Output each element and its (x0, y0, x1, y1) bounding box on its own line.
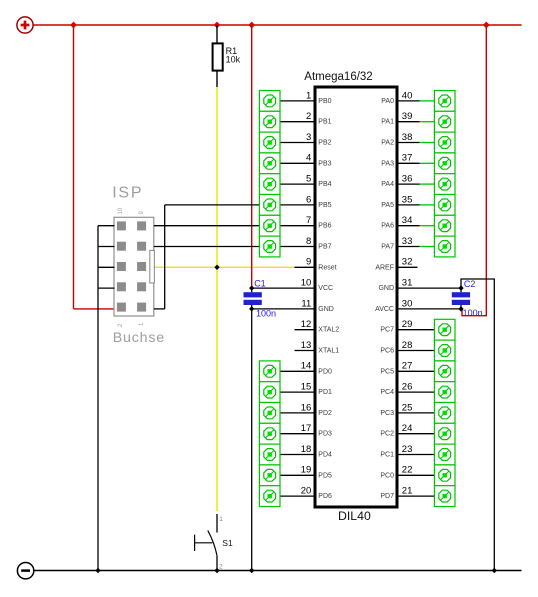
wire IC pin 4 (280, 162, 314, 164)
svg-text:4: 4 (306, 153, 311, 164)
node GND-right junction (492, 568, 497, 573)
svg-text:11: 11 (301, 298, 311, 309)
wire IC pin 36 (399, 183, 420, 185)
svg-text:PA0: PA0 (381, 98, 394, 105)
capacitor C2 (452, 279, 483, 318)
wire IC pin 3 (280, 142, 314, 144)
svg-text:30: 30 (402, 298, 413, 309)
svg-text:PD6: PD6 (318, 493, 332, 500)
connector terminal PD0 (pin 14) (259, 361, 280, 382)
ISP pad row 5 (117, 303, 126, 312)
svg-text:10: 10 (118, 207, 124, 214)
node reset junction (214, 265, 219, 270)
wire IC pin 1 (280, 100, 314, 102)
svg-text:19: 19 (301, 465, 312, 476)
svg-text:ISP: ISP (112, 185, 143, 202)
connector terminal pin 23 (434, 444, 455, 465)
wire IC pin 34 (399, 225, 420, 227)
wire ISP to PB4 connector (via vertical) (154, 308, 165, 310)
svg-text:31: 31 (402, 278, 413, 289)
svg-text:8: 8 (306, 236, 311, 247)
svg-text:10: 10 (301, 278, 312, 289)
svg-text:28: 28 (402, 340, 413, 351)
svg-text:6: 6 (306, 194, 311, 205)
connector terminal PB2 (pin 3) (259, 132, 280, 153)
connector terminal pin 29 (434, 319, 455, 340)
svg-text:PC7: PC7 (380, 327, 394, 334)
connector terminal PB6 (pin 7) (259, 215, 280, 236)
wire VCC to C2/AVCC pin30 (462, 25, 486, 316)
connector terminal PD6 (pin 20) (259, 486, 280, 507)
svg-text:PC3: PC3 (380, 410, 394, 417)
svg-text:35: 35 (402, 194, 413, 205)
VCC power terminal + (17, 17, 33, 33)
wire VCC to C1/VCC pin10 (251, 25, 253, 288)
svg-text:27: 27 (402, 361, 413, 372)
svg-text:37: 37 (402, 153, 413, 164)
wire IC pin 18 (280, 454, 314, 456)
wire IC pin 6 (280, 204, 314, 206)
node C1 top junction (249, 285, 254, 290)
svg-text:AREF: AREF (375, 264, 394, 271)
connector terminal PB3 (pin 4) (259, 153, 280, 174)
svg-text:100n: 100n (256, 309, 276, 319)
svg-text:XTAL1: XTAL1 (318, 348, 339, 355)
svg-text:Reset: Reset (318, 264, 336, 271)
wire IC pin 24 (399, 433, 435, 435)
ISP pad row 3 (117, 262, 126, 271)
svg-text:PB4: PB4 (318, 181, 331, 188)
wire IC pin 8 (280, 246, 314, 248)
wire IC pin 29 (399, 329, 435, 331)
wire IC pin 14 (280, 370, 314, 372)
connector terminal PD1 (pin 15) (259, 382, 280, 403)
wire IC pin 10 (252, 287, 314, 289)
wire ISP to PB6 connector (154, 246, 260, 248)
connector terminal PA0 (pin 40) (434, 91, 455, 112)
wire IC pin 22 (399, 474, 435, 476)
wire IC pin 16 (280, 412, 314, 414)
svg-text:Atmega16/32: Atmega16/32 (304, 71, 372, 83)
svg-text:PC2: PC2 (380, 431, 394, 438)
wire IC pin 27 (399, 370, 435, 372)
svg-text:39: 39 (402, 111, 413, 122)
connector terminal pin 27 (434, 361, 455, 382)
connector terminal PA6 (pin 34) (434, 215, 455, 236)
connector terminal PB4 (pin 5) (259, 174, 280, 195)
wire GND bottom rail (34, 570, 522, 572)
svg-text:PB3: PB3 (318, 160, 331, 167)
wire IC pin 40 (399, 100, 420, 102)
svg-text:PB6: PB6 (318, 223, 331, 230)
svg-text:12: 12 (301, 319, 312, 330)
svg-text:PC6: PC6 (380, 348, 394, 355)
svg-text:S1: S1 (222, 538, 233, 548)
connector terminal PA5 (pin 35) (434, 195, 455, 216)
svg-text:C1: C1 (254, 278, 266, 288)
resistor R1 (213, 43, 241, 70)
connector terminal PB7 (pin 8) (259, 236, 280, 257)
wire VCC to R1 (216, 25, 218, 43)
node C2 bottom junction (458, 306, 463, 311)
svg-text:C2: C2 (464, 279, 476, 289)
capacitor C1 (244, 278, 277, 318)
connector terminal PD2 (pin 16) (259, 403, 280, 424)
node VCC-R1 junction (214, 22, 221, 29)
svg-text:PB1: PB1 (318, 119, 331, 126)
node C2 top junction (458, 285, 463, 290)
wire IC pin 26 (399, 391, 435, 393)
connector terminal PA2 (pin 38) (434, 132, 455, 153)
svg-text:PB5: PB5 (318, 202, 331, 209)
ISP key notch (150, 250, 155, 283)
connector terminal pin 21 (434, 486, 455, 507)
svg-text:PC1: PC1 (380, 452, 394, 459)
svg-text:25: 25 (402, 402, 413, 413)
wire ISP to PB5 connector (154, 225, 260, 227)
svg-text:PA2: PA2 (381, 140, 394, 147)
op IC U1 Atmega16/32 body (315, 87, 397, 507)
svg-text:32: 32 (402, 257, 413, 268)
svg-text:17: 17 (301, 423, 312, 434)
svg-text:PA7: PA7 (381, 244, 394, 251)
svg-text:100n: 100n (463, 308, 483, 318)
wire IC pin 35 (399, 204, 420, 206)
ISP pad row 2 (117, 242, 126, 251)
wire IC pin 19 (280, 474, 314, 476)
svg-text:PA4: PA4 (381, 181, 394, 188)
connector terminal pin 28 (434, 340, 455, 361)
wire reset net vertical (216, 87, 218, 511)
svg-text:PA1: PA1 (381, 119, 394, 126)
wire ISP left row 1 (98, 225, 115, 227)
svg-text:PD3: PD3 (318, 431, 332, 438)
svg-text:PC5: PC5 (380, 368, 394, 375)
svg-text:10k: 10k (226, 54, 241, 64)
connector terminal pin 25 (434, 403, 455, 424)
wire IC pin 11 (252, 308, 314, 310)
wire IC pin 37 (399, 162, 420, 164)
wire IC pin 39 (399, 121, 420, 123)
svg-text:9: 9 (306, 257, 311, 268)
svg-text:26: 26 (402, 382, 413, 393)
wire C1 to GND rail (251, 309, 253, 571)
wire R1 bottom stub (216, 72, 218, 88)
svg-text:33: 33 (402, 236, 413, 247)
svg-text:PD0: PD0 (318, 368, 332, 375)
ISP pad row 4 (117, 282, 126, 291)
svg-text:40: 40 (402, 90, 413, 101)
svg-text:PC0: PC0 (380, 472, 394, 479)
connector terminal PA7 (pin 33) (434, 236, 455, 257)
wire IC pin 31 (399, 287, 462, 289)
wire ISP left row 3 (98, 266, 115, 268)
svg-text:PB7: PB7 (318, 244, 331, 251)
svg-text:PD5: PD5 (318, 472, 332, 479)
svg-text:GND: GND (378, 285, 394, 292)
svg-text:16: 16 (301, 402, 312, 413)
svg-text:3: 3 (306, 132, 311, 143)
node VCC-right junction (483, 22, 490, 29)
wire VCC top rail (33, 24, 521, 26)
svg-text:1: 1 (306, 90, 311, 101)
svg-text:1: 1 (219, 516, 223, 523)
svg-text:GND: GND (318, 306, 334, 313)
connector terminal pin 26 (434, 382, 455, 403)
svg-text:18: 18 (301, 444, 312, 455)
wire IC pin 33 (399, 246, 420, 248)
svg-text:2: 2 (219, 563, 223, 570)
connector terminal PB5 (pin 6) (259, 195, 280, 216)
wire reset net horizontal ISP to IC pin9 (154, 266, 296, 268)
GND power terminal - (17, 563, 33, 579)
svg-text:29: 29 (402, 319, 413, 330)
connector terminal PA3 (pin 37) (434, 153, 455, 174)
svg-text:5: 5 (306, 174, 311, 185)
svg-text:24: 24 (402, 423, 413, 434)
svg-text:PD4: PD4 (318, 452, 332, 459)
svg-text:2: 2 (306, 111, 311, 122)
connector terminal PA4 (pin 36) (434, 174, 455, 195)
wire ISP left row 4 (98, 287, 115, 289)
connector terminal PA1 (pin 39) (434, 111, 455, 132)
wire IC pin 7 (280, 225, 314, 227)
wire IC pin 30 (399, 308, 462, 310)
svg-text:14: 14 (301, 361, 312, 372)
node GND-S1 junction (214, 568, 219, 573)
wire IC pin 17 (280, 433, 314, 435)
svg-text:PD1: PD1 (318, 389, 332, 396)
connector terminal pin 24 (434, 423, 455, 444)
svg-text:Buchse: Buchse (113, 330, 165, 346)
wire IC pin 38 (399, 142, 420, 144)
svg-text:38: 38 (402, 132, 413, 143)
connector terminal PB0 (pin 1) (259, 91, 280, 112)
svg-text:34: 34 (402, 215, 413, 226)
wire IC pin 15 (280, 391, 314, 393)
svg-text:21: 21 (402, 486, 413, 497)
ISP pad row 1 (117, 221, 126, 230)
svg-text:PB2: PB2 (318, 140, 331, 147)
svg-text:PC4: PC4 (380, 389, 394, 396)
wire IC pin 23 (399, 454, 435, 456)
svg-text:22: 22 (402, 465, 413, 476)
svg-text:23: 23 (402, 444, 413, 455)
svg-text:20: 20 (301, 486, 312, 497)
svg-text:VCC: VCC (318, 285, 333, 292)
svg-text:PA3: PA3 (381, 160, 394, 167)
node VCC-C1 junction (248, 22, 255, 29)
wire C2/GND pin31 to GND rail (461, 279, 494, 571)
wire IC pin 28 (399, 350, 435, 352)
node GND-ISP junction (95, 568, 100, 573)
node C1 bottom junction (249, 306, 254, 311)
svg-text:PB0: PB0 (318, 98, 331, 105)
wire IC pin 5 (280, 183, 314, 185)
connector terminal PD5 (pin 19) (259, 465, 280, 486)
svg-text:PA6: PA6 (381, 223, 394, 230)
svg-text:36: 36 (402, 174, 413, 185)
connector terminal PD4 (pin 18) (259, 444, 280, 465)
svg-text:XTAL2: XTAL2 (318, 327, 339, 334)
svg-text:15: 15 (301, 382, 312, 393)
wire IC pin 32 (399, 266, 418, 268)
switch S1 (195, 514, 233, 571)
wire IC pin 9 (295, 266, 314, 268)
wire VCC to ISP pin2 (73, 25, 75, 309)
wire IC pin 13 (295, 350, 314, 352)
wire IC pin 2 (280, 121, 314, 123)
wire IC pin 20 (280, 495, 314, 497)
wire IC pin 25 (399, 412, 435, 414)
wire IC pin 12 (295, 329, 314, 331)
svg-text:13: 13 (301, 340, 312, 351)
connector ISP Buchse body (114, 217, 154, 316)
wire ISP left row 2 (98, 246, 115, 248)
svg-text:PD2: PD2 (318, 410, 332, 417)
svg-text:AVCC: AVCC (375, 306, 394, 313)
node GND-C1 junction (249, 568, 254, 573)
svg-text:PD7: PD7 (380, 493, 394, 500)
svg-text:PA5: PA5 (381, 202, 394, 209)
svg-text:7: 7 (306, 215, 311, 226)
connector terminal PD3 (pin 17) (259, 423, 280, 444)
node VCC-left junction (70, 22, 77, 29)
connector terminal pin 22 (434, 465, 455, 486)
wire ISP to GND rail (97, 226, 99, 571)
connector terminal PB1 (pin 2) (259, 111, 280, 132)
svg-text:DIL40: DIL40 (338, 509, 371, 523)
wire IC pin 21 (399, 495, 435, 497)
